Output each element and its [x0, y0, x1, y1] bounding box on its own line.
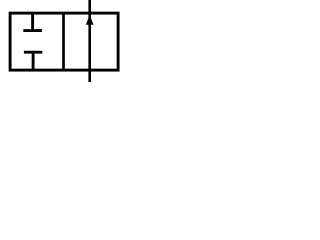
blocked port T (bottom, left square): stem wire: [32, 52, 35, 70]
blocked port T (bottom, left square): crossbar: [24, 51, 42, 54]
position divider wire: [62, 13, 65, 71]
valve body: 2-position box outline: [10, 13, 118, 70]
blocked port T (top, left square): crossbar: [23, 29, 42, 32]
blocked port T (top, left square): stem wire: [31, 13, 34, 31]
flow path wire (right square, full height): [88, 0, 91, 82]
flow direction arrowhead (pointing up): [86, 15, 94, 25]
